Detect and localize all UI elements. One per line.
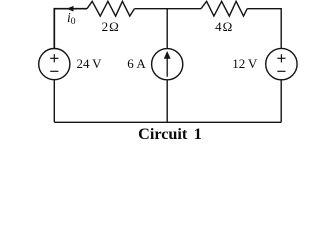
svg-text:24 V: 24 V — [77, 56, 103, 71]
V1 minus sign — [50, 70, 58, 72]
wire top right segment — [247, 9, 281, 49]
current source I1 circle — [152, 49, 183, 80]
wire bottom — [54, 121, 281, 123]
V1 plus sign — [50, 54, 58, 62]
svg-text:2 Ω: 2 Ω — [102, 19, 119, 34]
svg-text:i0: i0 — [67, 10, 76, 27]
resistor R1 2ohm — [87, 1, 134, 16]
wire left branch bottom — [53, 80, 55, 123]
svg-text:6 A: 6 A — [127, 56, 146, 71]
svg-text:12 V: 12 V — [232, 56, 258, 71]
V2 plus sign — [277, 54, 285, 62]
wire top middle segment — [134, 8, 201, 10]
current arrow i0 head — [67, 6, 74, 12]
wire top-left segment with current arrow — [54, 9, 87, 49]
svg-text:Circuit 1: Circuit 1 — [138, 125, 202, 143]
wire right branch bottom — [280, 80, 282, 122]
V2 minus sign — [277, 70, 285, 72]
resistor R2 4ohm — [201, 1, 247, 16]
wire middle branch top — [166, 9, 168, 49]
voltage source V2 circle — [266, 48, 297, 79]
voltage source V1 circle — [39, 49, 70, 80]
svg-text:4 Ω: 4 Ω — [215, 19, 232, 34]
wire middle branch bottom — [166, 80, 168, 123]
I1 arrow — [164, 51, 171, 77]
